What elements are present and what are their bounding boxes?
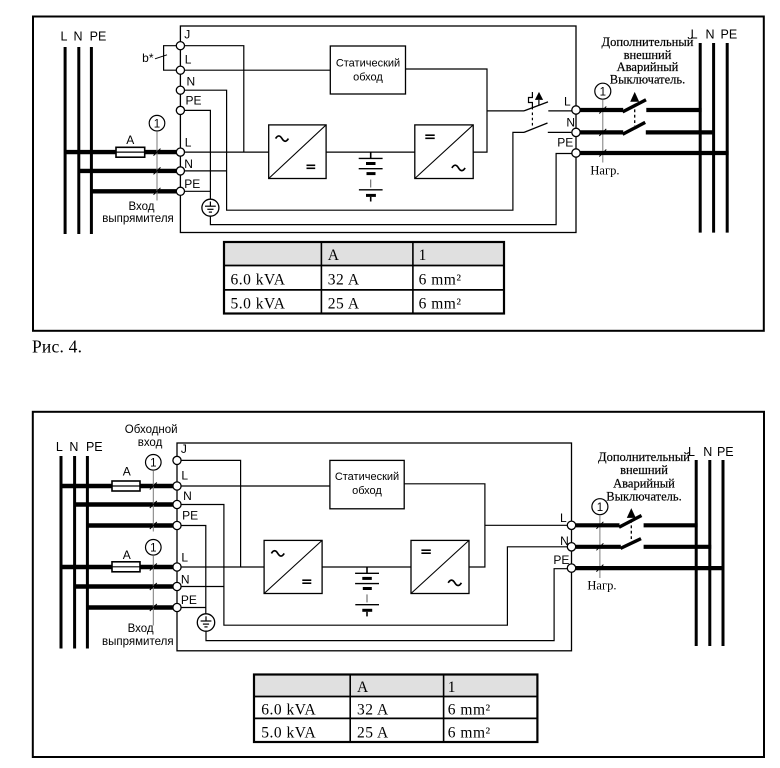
svg-text:L: L (564, 95, 571, 109)
wire: rect fuse to terminal L rect input (thick, fig5) (61, 565, 173, 569)
svg-text:Нагр.: Нагр. (590, 163, 619, 177)
svg-text:PE: PE (182, 509, 198, 523)
terminal L bypass (fig5) (173, 468, 189, 490)
wire: static bypass output to terminal L output node (fig5) (404, 484, 485, 567)
wire: terminal PE rect stub to ground node (fig4) (185, 190, 211, 192)
L mains bar (left, fig5) (60, 456, 63, 649)
svg-text:N: N (181, 572, 190, 586)
svg-text:1: 1 (600, 86, 606, 98)
svg-text:1: 1 (597, 502, 603, 514)
L mains bar (right, fig5) (695, 460, 698, 646)
svg-text:N: N (703, 445, 712, 459)
terminal L rect input (fig5) (173, 551, 189, 572)
svg-text:25 A: 25 A (357, 725, 389, 742)
svg-text:32 A: 32 A (328, 272, 360, 289)
measuring point 1 (right, fig4): circle, leader, ticks (595, 83, 611, 162)
svg-text:выпрямителя: выпрямителя (102, 213, 174, 225)
svg-text:6 mm²: 6 mm² (419, 272, 462, 289)
svg-text:PE: PE (553, 553, 569, 567)
wire: terminal N rect stub joining N return (fig4) (185, 170, 227, 172)
static bypass box (fig5) (330, 460, 404, 508)
wire: terminal L bypass to static bypass box (fig4) (185, 69, 331, 71)
ground symbol (fig4) (202, 199, 219, 216)
external emergency switch N pole (fig4): wire, blade, wire (580, 122, 715, 134)
ground symbol (fig5) (197, 614, 214, 631)
svg-text:Рис. 4.: Рис. 4. (32, 337, 82, 357)
svg-text:6 mm²: 6 mm² (448, 701, 491, 718)
ratings table (fig5) (254, 675, 537, 743)
wire: mains N to terminal N rect input (fig4) (79, 169, 177, 173)
external emergency switch L pole (fig5): wire, blade, wire (576, 516, 698, 528)
measuring point 1 (right, fig5): circle, leader, ticks (592, 499, 608, 578)
svg-text:b*: b* (142, 51, 154, 65)
wire: mains PE to terminal PE bypass (fig5) (87, 523, 173, 527)
PE mains bar (left, fig5) (86, 456, 89, 649)
svg-text:A: A (328, 247, 340, 264)
svg-text:Обходной: Обходной (125, 424, 178, 436)
wire: mains PE to terminal PE rect input (fig5) (87, 605, 173, 609)
static bypass box (fig4) (330, 46, 405, 94)
terminal PE bypass (fig5) (173, 509, 198, 530)
terminal L bypass (fig4) (176, 53, 192, 75)
fuse A (fig4) (116, 147, 145, 157)
wire: terminal J to rectifier L node (fig5) (181, 460, 241, 567)
L mains bar (right, fig4) (699, 43, 702, 233)
external switch linkage dashed (fig4) (634, 104, 636, 126)
wire: main L bus terminal to rectifier (fig4) (185, 151, 269, 153)
svg-text:вход: вход (138, 437, 163, 449)
PE mains bar (right, fig4) (726, 43, 729, 233)
external switch linkage dashed (fig5) (630, 520, 632, 541)
wire: rectifier to inverter DC link (fig4) (326, 151, 415, 153)
svg-text:25 A: 25 A (328, 296, 360, 313)
svg-text:32 A: 32 A (357, 701, 389, 718)
wire: ground return to terminal PE output (fig5) (206, 569, 567, 641)
external emergency switch L pole (fig4): wire, blade, wire (580, 100, 701, 112)
wire: terminal N bypass down to N return and terminal N output (fig5) (181, 505, 567, 626)
terminal L output (fig5) (560, 511, 576, 530)
svg-text:A: A (357, 679, 369, 696)
N mains bar (right, fig5) (708, 460, 711, 646)
svg-text:N: N (566, 116, 575, 130)
svg-text:J: J (184, 27, 190, 41)
N mains bar (left, fig4) (77, 47, 80, 234)
svg-text:1: 1 (150, 458, 156, 470)
wire: terminal N bypass down to N return (fig4) (185, 90, 525, 210)
terminal L output (fig4) (564, 95, 580, 115)
annotation: Дополнительный внешний Аварийный Выключатель (fig5) (598, 450, 690, 503)
svg-text:Статический: Статический (336, 58, 400, 70)
PE mains bar (right, fig5) (722, 460, 725, 646)
inverter U2 box (fig5) (411, 540, 469, 593)
svg-text:PE: PE (557, 136, 573, 150)
svg-text:PE: PE (717, 445, 734, 459)
jumper b* bracket between J and L (fig4) (164, 46, 176, 70)
svg-text:L: L (181, 468, 188, 482)
svg-text:PE: PE (186, 93, 202, 107)
svg-text:1: 1 (448, 679, 456, 696)
svg-text:N: N (560, 534, 569, 548)
terminal N output (fig5) (560, 534, 576, 551)
svg-text:обход: обход (352, 485, 382, 497)
svg-text:L: L (185, 136, 192, 150)
terminal PE output (fig4) (557, 136, 580, 158)
svg-text:N: N (187, 75, 196, 89)
inverter U2 box (fig4) (415, 125, 473, 179)
terminal L rect input (fig4) (176, 136, 192, 157)
svg-text:PE: PE (86, 440, 103, 454)
battery (fig5) (355, 567, 379, 616)
svg-text:L: L (560, 511, 567, 525)
terminal J (fig4) (176, 27, 190, 50)
svg-text:L: L (181, 551, 188, 565)
UPS enclosure box (fig5) (177, 443, 572, 651)
svg-text:Нагр.: Нагр. (587, 578, 616, 592)
svg-text:N: N (73, 30, 82, 44)
wire: terminal PE rect stub to ground node (fig5) (181, 607, 206, 609)
svg-text:N: N (184, 157, 193, 171)
measuring point 1 (bypass input, fig5) (146, 455, 162, 532)
internal transfer switch (fig4): L blade, N blade, linkage, trip hook, arrow (524, 92, 572, 132)
svg-text:Вход: Вход (128, 623, 154, 635)
wire: terminal L bypass to static bypass box (fig5) (181, 485, 330, 487)
wire: rectifier to inverter DC link (fig5) (322, 566, 411, 568)
svg-text:внешний: внешний (620, 463, 668, 477)
UPS enclosure box (fig4) (180, 26, 576, 233)
svg-text:обход: обход (353, 72, 383, 84)
svg-text:PE: PE (90, 30, 107, 44)
terminal J (fig5) (173, 442, 187, 465)
terminal PE output (fig5) (553, 553, 575, 573)
svg-text:L: L (56, 440, 63, 454)
svg-text:PE: PE (184, 177, 200, 191)
wire: terminal PE bypass down to ground node (fig5) (181, 526, 206, 614)
annotation: Дополнительный внешний Аварийный Выключатель (fig4) (602, 35, 694, 87)
N mains bar (left, fig5) (73, 456, 76, 649)
figure 4 frame (33, 17, 764, 331)
terminal PE rect input (fig5) (173, 593, 197, 611)
svg-text:N: N (183, 489, 192, 503)
wire: terminal PE output to right PE bar (fig4) (580, 151, 728, 155)
wire: terminal N rect stub joining N return (fig5) (181, 586, 224, 588)
leader line for b* label (fig4) (155, 55, 167, 59)
wire: terminal PE bypass down to ground node (fig4) (185, 110, 211, 199)
svg-text:PE: PE (721, 27, 738, 41)
wire: main L bus terminal to rectifier (fig5) (181, 566, 264, 568)
svg-text:J: J (181, 442, 187, 456)
terminal PE rect input (fig4) (176, 177, 200, 195)
svg-text:Выключатель.: Выключатель. (606, 489, 682, 503)
svg-text:1: 1 (154, 118, 160, 130)
svg-text:5.0 kVA: 5.0 kVA (261, 725, 316, 742)
rectifier U1 box (fig4) (269, 125, 326, 179)
svg-text:L: L (61, 30, 68, 44)
fuse A rectifier (fig5) (112, 562, 140, 572)
terminal N rect input (fig4) (176, 157, 193, 175)
external switch actuator arrow (fig4) (630, 92, 639, 102)
wire: ground return to terminal PE output (fig4) (210, 154, 572, 225)
svg-text:6 mm²: 6 mm² (419, 296, 462, 313)
wire: terminal J to rectifier L node (internal jumper wire, fig4) (185, 46, 244, 152)
measuring point 1 (rect input, fig5) (146, 540, 162, 626)
svg-text:выпрямителя: выпрямителя (102, 636, 174, 648)
svg-text:5.0 kVA: 5.0 kVA (231, 296, 286, 313)
wire: mains PE to terminal PE rect input (fig4) (91, 189, 176, 193)
terminal N bypass (fig5) (173, 489, 192, 509)
svg-text:N: N (69, 440, 78, 454)
wire: inverter output node to internal switch L pole (fig4) (487, 110, 524, 112)
svg-text:Дополнительный: Дополнительный (598, 450, 690, 464)
figure 5 frame (33, 412, 764, 757)
svg-text:1: 1 (419, 247, 427, 264)
wire: bypass fuse to terminal L bypass (thick, fig5) (61, 484, 173, 488)
svg-text:A: A (123, 548, 131, 562)
PE mains bar (left, fig4) (90, 47, 93, 234)
wire: mains N to terminal N bypass (fig5) (75, 502, 173, 506)
measuring point 1 (left, fig4): circle, leader and ticks (149, 115, 165, 200)
external emergency switch N pole (fig5): wire, blade, wire (576, 539, 711, 549)
L mains bar (left, fig4) (64, 47, 67, 234)
wire: mains N to terminal N rect input (fig5) (75, 584, 173, 588)
fuse A bypass (fig5) (112, 481, 140, 491)
svg-text:PE: PE (181, 593, 197, 607)
svg-text:6.0 kVA: 6.0 kVA (261, 701, 316, 718)
svg-text:A: A (123, 464, 131, 478)
svg-text:N: N (705, 27, 714, 41)
svg-text:1: 1 (150, 543, 156, 555)
N mains bar (right, fig4) (712, 43, 715, 233)
svg-text:A: A (126, 133, 134, 147)
battery (fig4) (359, 152, 383, 201)
svg-text:Дополнительный: Дополнительный (602, 35, 694, 49)
svg-text:6 mm²: 6 mm² (448, 725, 491, 742)
wire: terminal PE output to right PE bar (fig5) (576, 566, 725, 570)
external switch actuator arrow (fig5) (627, 508, 636, 518)
wire: static bypass output joining inverter output node (fig4) (406, 69, 488, 152)
terminal N rect input (fig5) (173, 572, 190, 590)
rectifier U1 box (fig5) (264, 540, 322, 593)
terminal N bypass (fig4) (176, 75, 195, 95)
svg-text:Статический: Статический (335, 471, 399, 483)
wire: output node to terminal L output (fig5) (485, 524, 567, 526)
svg-text:Выключатель.: Выключатель. (610, 73, 686, 87)
svg-text:Вход: Вход (128, 201, 154, 213)
terminal PE bypass (fig4) (176, 93, 201, 114)
terminal N output (fig4) (566, 116, 580, 137)
wire: fuse A output to terminal L rect input (thick mains L, fig4) (65, 150, 176, 154)
ratings table (fig4) (224, 242, 504, 314)
svg-text:L: L (185, 53, 192, 67)
svg-text:6.0 kVA: 6.0 kVA (231, 272, 286, 289)
